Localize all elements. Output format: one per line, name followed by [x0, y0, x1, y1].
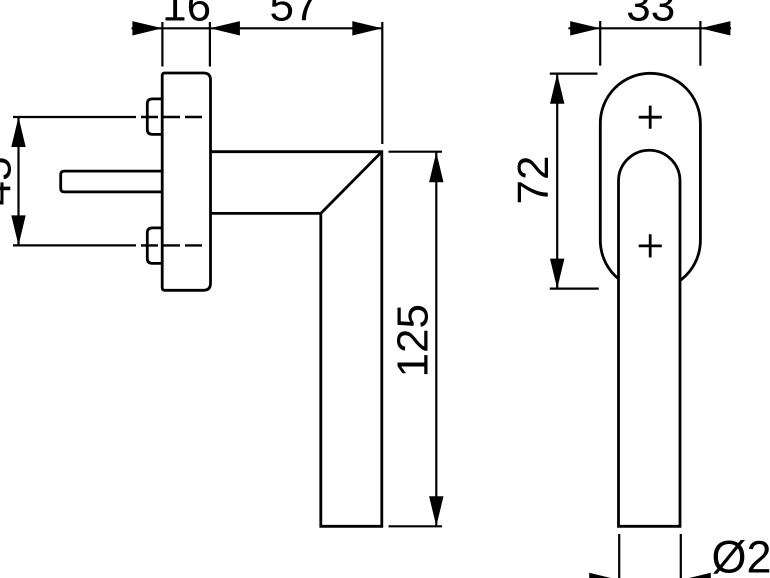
svg-text:57: 57 [270, 0, 319, 31]
top screw cross mark [639, 106, 662, 129]
rosette front view (stadium) [600, 73, 700, 290]
rosette side view (left view) [162, 73, 210, 290]
top screw boss (side view) [147, 99, 163, 134]
dimension Ø22: left extension line [618, 534, 620, 578]
bottom screw cross mark [639, 234, 662, 257]
dimension 16/57: middle arrow (pointing left) [210, 21, 240, 35]
top screw centre line (dash) [13, 116, 136, 118]
dimension 125: bottom extension line [389, 525, 443, 527]
dimension 45: arrow down [11, 215, 25, 245]
svg-text:72: 72 [509, 156, 558, 205]
dimension 33: dimension line [568, 27, 731, 29]
svg-text:16: 16 [162, 0, 211, 31]
dimension 45: dimension line [17, 117, 19, 245]
svg-text:Ø22: Ø22 [712, 532, 770, 578]
dimension 33: left extension line [599, 21, 601, 66]
dimension 125: arrow up [429, 152, 443, 182]
dimension 125: top extension line [389, 151, 443, 153]
dimension 72: top extension line [550, 72, 598, 74]
extension line at rosette outer face [161, 22, 163, 67]
svg-text:33: 33 [626, 0, 675, 31]
dimension 72: arrow down [550, 259, 564, 289]
dimension 57: right arrow (pointing right) [352, 21, 382, 35]
dimension 33: left arrow (outside, pointing right) [570, 21, 600, 35]
dimension 16/57: dimension line [132, 27, 383, 29]
dimension 33: right extension line [699, 21, 701, 66]
dimension 16: left arrow (outside, pointing right) [132, 21, 162, 35]
bottom screw boss (side view) [147, 228, 163, 264]
dimension 33: right arrow (outside, pointing left) [700, 21, 730, 35]
dimension 125: arrow down [429, 496, 443, 526]
dimension 72: arrow up [550, 74, 564, 104]
dimension Ø22: left arrow (outside, pointing right) [589, 573, 619, 578]
dimension 125: dimension line [435, 152, 437, 526]
svg-text:125: 125 [388, 304, 437, 377]
extension line at rosette inner face [209, 22, 211, 67]
svg-text:45: 45 [0, 157, 21, 206]
bottom screw centre line (dash) [13, 244, 136, 246]
extension line at handle outer corner [381, 22, 383, 144]
dimension 45: arrow up [11, 117, 25, 147]
dimension 72: bottom extension line [550, 288, 599, 290]
dimension 72: dimension line [556, 74, 558, 289]
dimension Ø22: right arrow (outside, pointing left) [681, 573, 711, 578]
handle neck and grip (front view) [619, 150, 681, 526]
handle arm and grip outline (side view) [211, 152, 382, 527]
dimension Ø22: right extension line [680, 534, 682, 578]
spindle (square bar, side view) [61, 171, 164, 192]
